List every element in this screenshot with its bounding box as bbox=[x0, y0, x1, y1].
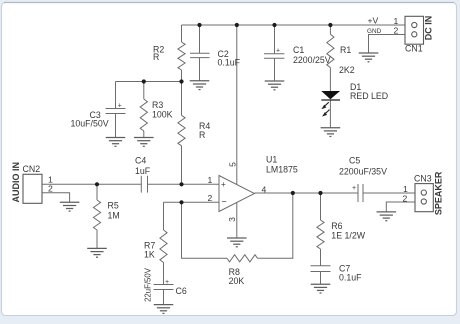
node feedback tap bbox=[179, 200, 183, 204]
svg-text:AUDIO IN: AUDIO IN bbox=[11, 162, 21, 203]
svg-text:R: R bbox=[153, 52, 159, 62]
ground C3 bbox=[106, 138, 126, 147]
wire C4 to op-amp pin1 bbox=[148, 183, 220, 185]
svg-text:2: 2 bbox=[394, 26, 399, 36]
svg-text:DC IN: DC IN bbox=[424, 16, 434, 41]
resistor R7 bbox=[160, 230, 167, 263]
node R5 top bbox=[95, 182, 99, 186]
resistor R8 bbox=[227, 255, 258, 262]
svg-text:+: + bbox=[165, 279, 169, 286]
svg-text:2K2: 2K2 bbox=[339, 65, 355, 75]
svg-text:+: + bbox=[352, 185, 356, 192]
wire feedback up to output bbox=[258, 193, 293, 258]
capacitor C2 bbox=[190, 53, 210, 57]
svg-text:5: 5 bbox=[227, 162, 237, 167]
label R8 bbox=[229, 267, 245, 286]
wire top +V rail bbox=[182, 24, 406, 26]
label C4 bbox=[135, 156, 151, 177]
wire op-amp power pin5/pin3 vertical bbox=[236, 25, 238, 238]
label R4 bbox=[199, 121, 210, 140]
capacitor C6 bbox=[154, 285, 174, 290]
node R3 top bbox=[142, 79, 146, 83]
wire D1 to ground bbox=[329, 100, 331, 128]
svg-text:100K: 100K bbox=[152, 110, 173, 120]
svg-text:LM1875: LM1875 bbox=[266, 165, 298, 175]
wire C2 drop bbox=[199, 25, 201, 53]
svg-text:CN1: CN1 bbox=[405, 44, 423, 54]
capacitor C1 bbox=[264, 54, 284, 58]
wire CN1 pin2 GND bbox=[369, 35, 406, 53]
wire C1 to ground bbox=[274, 58, 276, 81]
capacitor C3 bbox=[106, 109, 126, 114]
wire R7 to C6 bbox=[163, 263, 165, 285]
svg-text:1K: 1K bbox=[144, 250, 155, 260]
node R4 bottom bbox=[179, 182, 183, 186]
svg-text:2200uF/35V: 2200uF/35V bbox=[339, 166, 387, 176]
resistor R4 bbox=[178, 115, 185, 146]
wire R2 top drop bbox=[181, 25, 183, 42]
wire audio input pin1 bbox=[42, 183, 141, 185]
resistor R3 bbox=[140, 99, 147, 131]
wire R7 top bbox=[163, 202, 165, 230]
svg-text:+: + bbox=[118, 103, 122, 110]
wire C3 to ground bbox=[115, 114, 117, 138]
label C1 bbox=[293, 45, 331, 65]
wire CN2 pin2 bbox=[42, 193, 70, 203]
svg-text:C4: C4 bbox=[135, 156, 146, 166]
resistor R2 bbox=[178, 42, 185, 70]
svg-text:+V: +V bbox=[368, 15, 379, 25]
node output feedback bbox=[291, 191, 295, 195]
resistor R6 bbox=[317, 220, 324, 249]
svg-text:R: R bbox=[199, 130, 205, 140]
svg-text:+: + bbox=[276, 48, 280, 55]
svg-text:U1: U1 bbox=[266, 154, 277, 164]
label D1 bbox=[350, 82, 388, 101]
svg-text:RED LED: RED LED bbox=[350, 91, 388, 101]
wire C6 to ground bbox=[163, 290, 165, 305]
svg-text:1: 1 bbox=[394, 16, 399, 26]
wire C7 to ground bbox=[320, 272, 322, 285]
wire op-amp pin2 bbox=[164, 201, 220, 203]
wire bias rail bbox=[116, 81, 182, 83]
label R5 bbox=[108, 201, 120, 221]
ground D1 bbox=[321, 128, 341, 137]
svg-text:−: − bbox=[222, 197, 227, 207]
wire R1 top bbox=[329, 25, 331, 34]
node R1 top bbox=[328, 23, 332, 27]
connector CN1 bbox=[405, 16, 424, 44]
wire R6 top bbox=[320, 193, 322, 220]
svg-text:10uF/50V: 10uF/50V bbox=[71, 118, 109, 128]
wire CN3 pin2 bbox=[386, 202, 415, 212]
svg-text:2200/25V: 2200/25V bbox=[293, 55, 331, 65]
label R3 bbox=[152, 100, 173, 120]
svg-text:1: 1 bbox=[208, 175, 213, 185]
capacitor C5 bbox=[358, 184, 363, 202]
wire R4 top bbox=[181, 82, 183, 116]
svg-text:2: 2 bbox=[208, 193, 213, 203]
wire C1 drop bbox=[274, 25, 276, 54]
wire R3 to ground bbox=[143, 131, 145, 138]
svg-text:GND: GND bbox=[367, 28, 382, 35]
svg-text:R3: R3 bbox=[152, 100, 163, 110]
label R7 bbox=[144, 241, 155, 260]
label C2 bbox=[218, 49, 241, 68]
wire output pin4 bbox=[255, 192, 359, 194]
connector CN2 bbox=[23, 174, 42, 203]
node R2 bottom bbox=[179, 79, 183, 83]
svg-text:1uF: 1uF bbox=[135, 166, 151, 176]
wire R4 bottom bbox=[181, 146, 183, 185]
svg-text:SPEAKER: SPEAKER bbox=[433, 171, 443, 215]
label C7 bbox=[339, 264, 362, 283]
label R1 bbox=[339, 45, 355, 75]
ground C1 bbox=[265, 81, 285, 90]
resistor R5 bbox=[93, 200, 100, 230]
capacitor C7 bbox=[311, 266, 331, 272]
svg-text:CN2: CN2 bbox=[23, 164, 41, 174]
ground CN2 bbox=[60, 202, 80, 211]
wire R5 top bbox=[96, 184, 98, 200]
svg-text:4: 4 bbox=[262, 185, 267, 195]
resistor R1 bbox=[327, 34, 334, 67]
svg-text:C5: C5 bbox=[349, 156, 360, 166]
svg-text:R6: R6 bbox=[331, 221, 342, 231]
ground C2 bbox=[190, 81, 210, 90]
wire C5 to CN3 pin1 bbox=[363, 192, 415, 194]
svg-text:1E 1/2W: 1E 1/2W bbox=[331, 231, 365, 241]
svg-text:0.1uF: 0.1uF bbox=[218, 58, 241, 68]
svg-text:2: 2 bbox=[48, 184, 53, 194]
svg-text:22uF/50V: 22uF/50V bbox=[143, 267, 152, 302]
svg-text:C1: C1 bbox=[293, 45, 304, 55]
label C3 bbox=[71, 110, 109, 128]
ground C6 bbox=[154, 305, 174, 314]
svg-text:2: 2 bbox=[403, 193, 408, 203]
svg-text:3: 3 bbox=[227, 217, 237, 222]
ground CN3 bbox=[377, 212, 397, 221]
LED D1 bbox=[321, 91, 340, 117]
svg-text:R5: R5 bbox=[108, 201, 119, 211]
label R6 bbox=[331, 221, 365, 241]
svg-text:CN3: CN3 bbox=[414, 173, 432, 183]
wire C3 drop bbox=[115, 82, 117, 109]
svg-text:1M: 1M bbox=[108, 211, 120, 221]
ground C7 bbox=[311, 284, 331, 293]
wire C2 to ground bbox=[199, 58, 201, 81]
svg-text:0.1uF: 0.1uF bbox=[339, 272, 362, 282]
capacitor C4 bbox=[141, 176, 147, 193]
svg-text:20K: 20K bbox=[229, 276, 245, 286]
connector CN3 bbox=[415, 184, 433, 212]
ground R5 bbox=[87, 248, 107, 257]
wire R3 drop bbox=[143, 82, 145, 100]
svg-text:C6: C6 bbox=[176, 286, 187, 296]
label R2 bbox=[153, 45, 164, 63]
node C1 top bbox=[272, 23, 276, 27]
op-amp U1 bbox=[219, 176, 255, 212]
ground R3 bbox=[134, 138, 154, 147]
wire R6 to C7 bbox=[320, 249, 322, 266]
svg-text:+: + bbox=[221, 180, 226, 189]
ground op-amp pin3 bbox=[227, 238, 247, 247]
wire feedback down bbox=[182, 202, 228, 258]
node output R6 bbox=[318, 191, 322, 195]
svg-text:R1: R1 bbox=[340, 45, 351, 55]
node C2 top bbox=[197, 23, 201, 27]
label U1 bbox=[266, 154, 298, 174]
wire R1 to D1 bbox=[329, 68, 331, 91]
label C5 bbox=[339, 156, 387, 177]
wire R2 bottom bbox=[181, 70, 183, 82]
wire R5 to ground bbox=[96, 230, 98, 248]
node pin5 top bbox=[235, 23, 239, 27]
ground CN1 bbox=[359, 53, 379, 62]
